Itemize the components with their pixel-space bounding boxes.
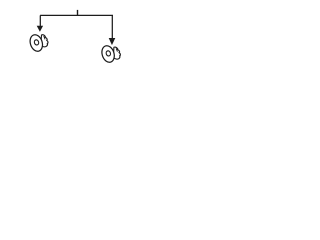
buzzer right cylinder side <box>113 47 120 59</box>
arrowhead left <box>37 26 43 32</box>
buzzer left <box>28 33 48 53</box>
buzzer right hub <box>106 50 112 56</box>
buzzer left cylinder ridge <box>44 36 45 39</box>
buzzer left cylinder side <box>41 35 48 47</box>
wire right vertical <box>111 15 113 38</box>
arrowhead right <box>109 38 116 45</box>
wire top horizontal <box>40 14 113 16</box>
buzzer right cylinder ridge <box>116 48 117 51</box>
node tick center <box>77 10 79 16</box>
buzzer left hub <box>34 39 40 45</box>
buzzer right face <box>100 44 116 64</box>
wire left vertical <box>39 15 41 26</box>
buzzer right <box>100 44 121 64</box>
buzzer left face <box>28 33 44 53</box>
